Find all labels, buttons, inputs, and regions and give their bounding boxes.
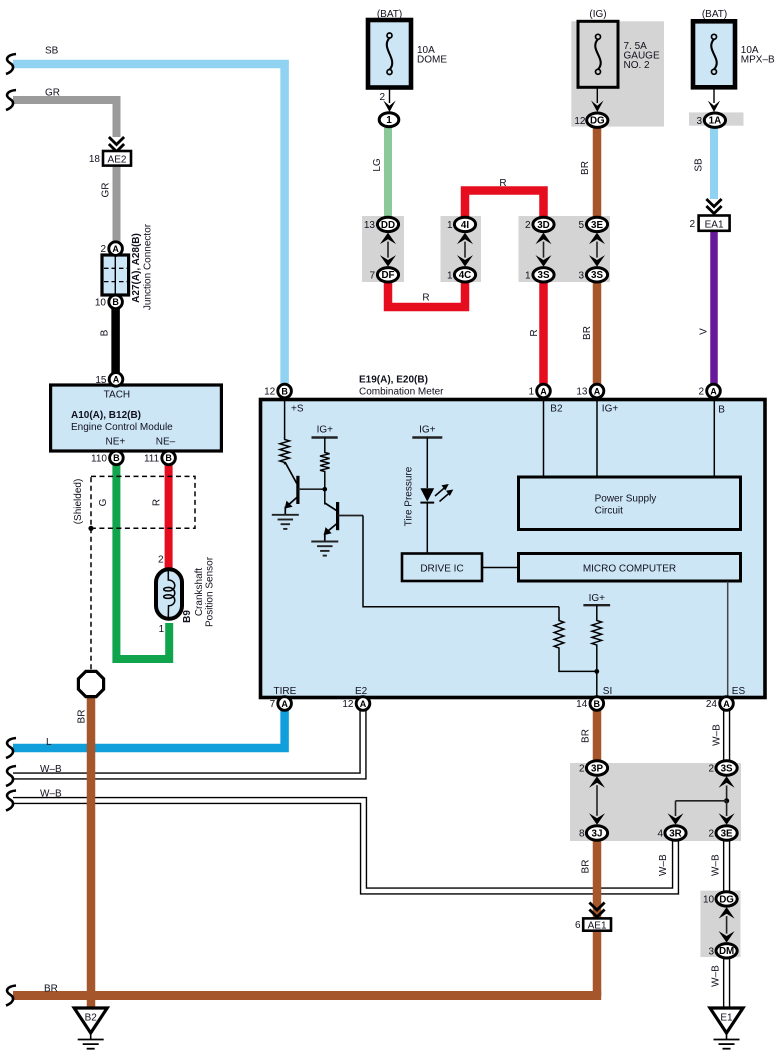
svg-text:8: 8 xyxy=(579,829,585,840)
svg-text:BR: BR xyxy=(581,729,592,743)
svg-text:3E: 3E xyxy=(591,220,603,231)
svg-text:10: 10 xyxy=(95,298,107,309)
svg-text:GR: GR xyxy=(45,88,60,99)
svg-text:2: 2 xyxy=(689,219,695,230)
svg-text:3S: 3S xyxy=(721,763,733,774)
svg-text:7: 7 xyxy=(369,271,375,282)
svg-text:L: L xyxy=(46,737,52,748)
svg-text:R: R xyxy=(422,293,429,304)
svg-text:15: 15 xyxy=(95,375,107,386)
svg-text:V: V xyxy=(699,328,710,335)
svg-text:SB: SB xyxy=(694,158,705,172)
svg-text:3: 3 xyxy=(709,946,715,957)
svg-text:SI: SI xyxy=(603,686,612,697)
svg-text:111: 111 xyxy=(144,454,160,465)
svg-text:3S: 3S xyxy=(591,270,603,281)
svg-text:B: B xyxy=(594,699,601,709)
svg-text:18: 18 xyxy=(89,154,101,165)
svg-text:R: R xyxy=(529,329,540,336)
svg-text:IG+: IG+ xyxy=(589,593,606,604)
svg-text:1: 1 xyxy=(525,271,531,282)
svg-text:W–B: W–B xyxy=(710,854,721,876)
svg-text:B: B xyxy=(113,453,120,463)
svg-text:B: B xyxy=(100,329,111,336)
svg-text:DG: DG xyxy=(719,894,734,905)
svg-text:2: 2 xyxy=(158,555,164,566)
svg-text:BR: BR xyxy=(580,161,591,175)
svg-text:IG+: IG+ xyxy=(602,404,619,415)
svg-text:B9: B9 xyxy=(182,610,193,623)
svg-text:ES: ES xyxy=(732,686,746,697)
svg-text:W–B: W–B xyxy=(712,724,723,746)
svg-text:1: 1 xyxy=(528,387,534,398)
svg-text:BR: BR xyxy=(582,326,593,340)
svg-text:DG: DG xyxy=(590,116,605,127)
svg-text:E2: E2 xyxy=(355,686,368,697)
svg-text:GR: GR xyxy=(101,183,112,198)
svg-text:G: G xyxy=(98,498,109,506)
svg-text:DRIVE IC: DRIVE IC xyxy=(420,564,463,575)
svg-text:IG+: IG+ xyxy=(419,425,436,436)
svg-text:A: A xyxy=(112,244,119,254)
svg-text:4: 4 xyxy=(657,829,663,840)
svg-text:W–B: W–B xyxy=(711,965,722,987)
svg-text:2: 2 xyxy=(379,92,385,103)
svg-text:2: 2 xyxy=(579,764,585,775)
svg-text:A: A xyxy=(723,699,730,709)
svg-text:3P: 3P xyxy=(591,763,603,774)
svg-text:DM: DM xyxy=(719,946,734,957)
svg-text:MPX–B: MPX–B xyxy=(741,55,775,66)
svg-text:1: 1 xyxy=(447,271,453,282)
svg-text:LG: LG xyxy=(372,158,383,172)
svg-text:Junction Connector: Junction Connector xyxy=(143,223,154,310)
svg-text:Power Supply: Power Supply xyxy=(595,494,657,505)
svg-text:(BAT): (BAT) xyxy=(702,9,727,20)
svg-text:(IG): (IG) xyxy=(589,9,606,20)
svg-text:1: 1 xyxy=(386,115,392,126)
svg-text:DOME: DOME xyxy=(417,55,447,66)
svg-text:14: 14 xyxy=(576,699,588,710)
svg-text:6: 6 xyxy=(575,920,581,931)
svg-text:IG+: IG+ xyxy=(317,425,334,436)
svg-text:DF: DF xyxy=(381,270,394,281)
svg-text:AE2: AE2 xyxy=(108,155,127,166)
svg-text:EA1: EA1 xyxy=(705,219,724,230)
svg-text:W–B: W–B xyxy=(658,854,669,876)
svg-text:3J: 3J xyxy=(592,828,603,839)
svg-text:A27(A), A28(B): A27(A), A28(B) xyxy=(131,233,142,303)
svg-text:Crankshaft: Crankshaft xyxy=(194,568,205,617)
svg-text:12: 12 xyxy=(264,387,276,398)
svg-text:SB: SB xyxy=(45,46,59,57)
svg-text:1: 1 xyxy=(447,220,453,231)
svg-text:10: 10 xyxy=(703,895,715,906)
svg-text:2: 2 xyxy=(709,829,715,840)
svg-text:B2: B2 xyxy=(85,1013,98,1024)
svg-text:3D: 3D xyxy=(537,220,550,231)
svg-text:Circuit: Circuit xyxy=(595,506,624,517)
svg-text:24: 24 xyxy=(706,699,718,710)
svg-text:B: B xyxy=(112,297,119,307)
svg-text:BR: BR xyxy=(581,860,592,874)
svg-text:E1: E1 xyxy=(720,1013,733,1024)
svg-text:MICRO COMPUTER: MICRO COMPUTER xyxy=(583,564,676,575)
svg-text:A: A xyxy=(594,386,601,396)
svg-text:TACH: TACH xyxy=(104,390,130,401)
svg-text:A: A xyxy=(540,386,547,396)
svg-text:2: 2 xyxy=(525,220,531,231)
svg-text:NO. 2: NO. 2 xyxy=(624,60,651,71)
svg-text:13: 13 xyxy=(364,220,376,231)
svg-text:B: B xyxy=(281,386,288,396)
svg-text:7: 7 xyxy=(270,699,276,710)
svg-text:1A: 1A xyxy=(709,116,722,127)
svg-text:2: 2 xyxy=(709,764,715,775)
svg-text:Position Sensor: Position Sensor xyxy=(205,556,216,627)
svg-text:AE1: AE1 xyxy=(588,920,607,931)
svg-text:DD: DD xyxy=(381,220,395,231)
svg-text:A: A xyxy=(360,699,367,709)
svg-text:R: R xyxy=(499,178,506,189)
svg-text:12: 12 xyxy=(574,116,586,127)
svg-text:3R: 3R xyxy=(669,828,682,839)
svg-text:B2: B2 xyxy=(550,404,563,415)
svg-text:110: 110 xyxy=(91,454,107,465)
svg-text:A10(A), B12(B): A10(A), B12(B) xyxy=(71,410,141,421)
svg-text:5: 5 xyxy=(578,220,584,231)
svg-text:A: A xyxy=(281,699,288,709)
svg-text:2: 2 xyxy=(100,244,106,255)
svg-text:13: 13 xyxy=(576,387,588,398)
svg-text:4C: 4C xyxy=(459,270,472,281)
svg-text:E19(A), E20(B): E19(A), E20(B) xyxy=(359,375,428,386)
svg-text:BR: BR xyxy=(77,710,88,724)
svg-text:Combination Meter: Combination Meter xyxy=(359,387,444,398)
svg-text:2: 2 xyxy=(698,387,704,398)
svg-text:12: 12 xyxy=(342,699,354,710)
svg-text:B: B xyxy=(718,405,725,416)
svg-text:R: R xyxy=(152,499,163,506)
svg-text:NE–: NE– xyxy=(156,437,176,448)
svg-text:BR: BR xyxy=(44,984,58,995)
svg-text:3: 3 xyxy=(578,271,584,282)
svg-text:A: A xyxy=(113,375,120,385)
svg-text:3: 3 xyxy=(696,116,702,127)
svg-text:Tire Pressure: Tire Pressure xyxy=(404,466,415,526)
svg-text:1: 1 xyxy=(159,624,165,635)
svg-text:3E: 3E xyxy=(721,828,733,839)
svg-text:W–B: W–B xyxy=(40,789,62,800)
svg-text:NE+: NE+ xyxy=(106,437,126,448)
svg-text:W–B: W–B xyxy=(40,764,62,775)
svg-text:4I: 4I xyxy=(461,220,469,231)
svg-text:Engine Control Module: Engine Control Module xyxy=(71,422,173,433)
svg-text:A: A xyxy=(710,386,717,396)
svg-text:B: B xyxy=(165,453,172,463)
svg-text:+S: +S xyxy=(291,404,304,415)
svg-text:(Shielded): (Shielded) xyxy=(73,479,84,525)
svg-text:3S: 3S xyxy=(538,270,550,281)
